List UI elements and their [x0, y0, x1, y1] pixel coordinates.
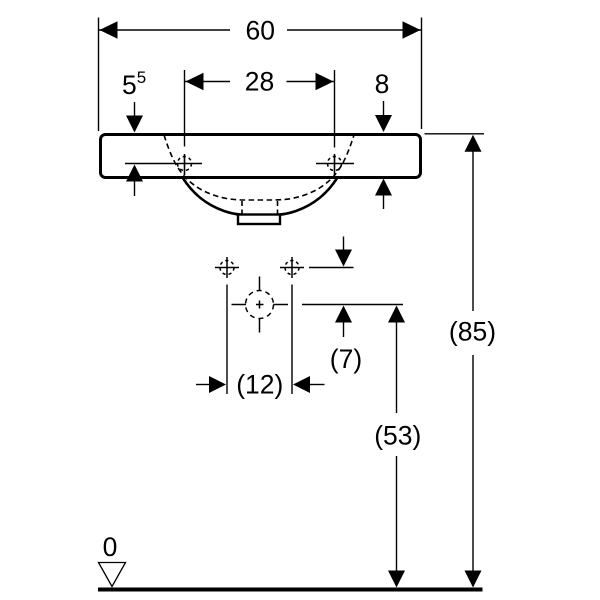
drain trap centerline horizontal left	[232, 304, 247, 306]
dim (7) lower arrow tail	[343, 322, 345, 337]
dim (12) left arrowhead (right)	[209, 376, 226, 393]
dim 60 left extension line	[98, 18, 100, 132]
tap hole left dashed circle	[178, 157, 192, 171]
dim 5.5 upper arrow tail	[134, 102, 136, 117]
dim (85) upper arrowhead (up)	[465, 135, 482, 152]
svg-text:(85): (85)	[449, 316, 496, 346]
dim 28 right extension line	[334, 70, 336, 148]
dim (53) lower arrowhead (down)	[388, 571, 405, 588]
dim (85) top extension line	[425, 133, 485, 135]
dim (85) lower arrowhead (down)	[465, 571, 482, 588]
dim (53) line lower segment	[396, 456, 398, 572]
basin outline	[101, 135, 421, 178]
drain trap centerline vertical center tick	[259, 301, 261, 309]
dim 8 upper arrow tail	[383, 101, 385, 116]
svg-text:0: 0	[103, 532, 118, 562]
svg-text:8: 8	[375, 69, 390, 99]
fixing hole left dashed circle	[220, 261, 234, 275]
svg-text:60: 60	[246, 15, 275, 45]
datum triangle	[99, 563, 126, 587]
dim (53) line upper segment	[396, 322, 398, 413]
svg-text:(12): (12)	[236, 370, 283, 400]
dim (53) upper arrowhead (up)	[388, 306, 405, 323]
dim (7) upper arrow tail	[343, 237, 345, 253]
floor line	[98, 588, 483, 592]
bowl drain hidden side (dashed) left	[241, 201, 243, 214]
fixing hole left horizontal centerline	[215, 267, 239, 269]
dim (12) right arrow tail	[310, 384, 325, 386]
dim (12) left arrow tail	[196, 384, 211, 386]
svg-text:28: 28	[245, 67, 274, 97]
dim 28 label	[230, 71, 287, 93]
dim 60 line	[99, 29, 421, 31]
dim 60 right arrowhead	[403, 21, 421, 38]
drain trap centerline vertical top	[259, 277, 261, 292]
dim 5.5 lower arrowhead (up)	[126, 165, 143, 182]
dim 60 label	[230, 19, 287, 41]
fixing hole right vertical centerline	[291, 257, 293, 278]
bowl drain hidden side (dashed) right	[277, 201, 279, 214]
dim (12) right extension line	[291, 285, 293, 395]
tap hole right dashed circle	[328, 157, 342, 171]
fixing hole right horizontal centerline	[280, 267, 304, 269]
fixing hole left vertical centerline	[226, 257, 228, 278]
drain trap circle dashed	[246, 291, 274, 319]
dim 28 left arrowhead	[186, 73, 204, 90]
svg-text:(7): (7)	[330, 344, 362, 374]
dim (7) top reference line	[309, 267, 354, 269]
tap hole right horizontal centerline	[316, 163, 354, 165]
tap hole left horizontal centerline	[125, 163, 202, 165]
dim (7) bottom reference line	[302, 304, 403, 306]
dim (7) upper arrowhead (down)	[335, 250, 352, 267]
drain trap centerline horizontal right	[274, 304, 289, 306]
dim 60 left arrowhead	[100, 21, 118, 38]
dim 28 right arrowhead	[316, 73, 334, 90]
dim (7) lower arrowhead (up)	[335, 306, 352, 323]
dim 28 line	[185, 81, 334, 83]
bowl hidden (dashed) outline	[164, 135, 354, 200]
dim 8 lower arrowhead (up)	[375, 179, 392, 196]
dim 28 left extension line	[184, 70, 186, 147]
dim 60 right extension line	[421, 18, 423, 130]
fixing hole right dashed circle	[285, 261, 299, 275]
dim (12) right arrowhead (left)	[293, 376, 310, 393]
dim (85) line upper segment	[472, 151, 474, 311]
tap hole right vertical centerline	[334, 154, 336, 175]
dim (12) left extension line	[226, 285, 228, 395]
drain trap centerline horizontal center tick	[256, 304, 264, 306]
dim 5.5 upper arrowhead (down)	[126, 116, 143, 133]
drain rectangle	[238, 215, 280, 225]
dim 5.5 lower arrow tail	[134, 181, 136, 196]
dim 8 lower arrow tail	[383, 195, 385, 209]
dim 8 upper arrowhead (down)	[375, 115, 392, 132]
svg-text:(53): (53)	[374, 421, 421, 451]
dim (85) line lower segment	[472, 355, 474, 572]
bowl visible bottom curve	[183, 178, 338, 216]
drain trap centerline vertical bottom	[259, 318, 261, 333]
tap hole left vertical centerline	[184, 154, 186, 175]
